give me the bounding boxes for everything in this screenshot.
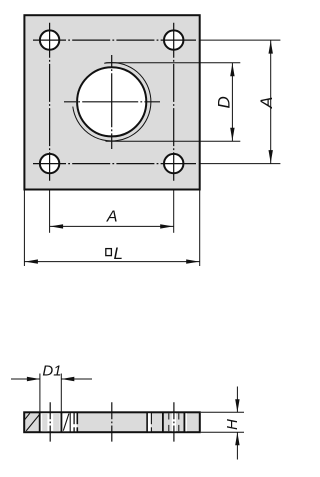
svg-text:A: A xyxy=(257,97,276,109)
extension line A top xyxy=(200,39,281,41)
label square symbol xyxy=(106,249,112,256)
extension line D1 left xyxy=(39,374,41,413)
hole top-left xyxy=(40,30,59,49)
hole1 right edge xyxy=(60,412,62,432)
hole2 white band center xyxy=(172,413,176,431)
svg-text:L: L xyxy=(114,244,123,263)
hole2 white sliver right xyxy=(185,413,187,431)
dimension line square L xyxy=(24,261,199,263)
side centerline hole1 xyxy=(49,402,51,441)
thread arc (3/4 circle) xyxy=(73,63,151,141)
extension line plate right edge xyxy=(199,190,201,266)
extension line plate left edge xyxy=(23,190,25,266)
dimension line A horizontal xyxy=(50,225,174,227)
central bore circle xyxy=(77,67,146,136)
hole2 chamfer line left xyxy=(168,413,170,419)
hole1 void (sectioned) xyxy=(40,413,60,431)
hole top-right xyxy=(164,30,183,49)
extension line A bottom xyxy=(200,163,281,165)
hole1 inner grey band right xyxy=(53,413,59,431)
svg-text:D: D xyxy=(215,96,234,108)
centerline vertical central hole xyxy=(111,55,113,149)
side centerline hole2 xyxy=(173,402,175,441)
centerline horizontal top hole row xyxy=(33,39,196,41)
plate outline (top view square flange) xyxy=(24,15,199,189)
hole bottom-left xyxy=(40,154,59,173)
extension line D1 right xyxy=(60,374,62,413)
dimension line D1 right tail xyxy=(61,378,92,380)
hole fills xyxy=(40,30,59,49)
central thread edge left xyxy=(73,412,75,424)
central thread edge right xyxy=(150,412,152,424)
central bore edge left xyxy=(76,412,78,424)
hatch lines xyxy=(16,413,69,431)
central bore edge right xyxy=(146,412,148,432)
hole1 inner grey band left xyxy=(42,413,47,431)
side view plate section xyxy=(24,412,200,432)
extension line H bottom xyxy=(201,431,244,433)
extension line D bottom xyxy=(106,140,241,142)
extension line bottom holes right xyxy=(173,190,175,232)
extension line H top xyxy=(201,411,244,413)
dimension line A vertical xyxy=(270,40,272,164)
hole2 right edge xyxy=(183,412,185,432)
dimension line H xyxy=(236,387,238,413)
extension line bottom holes left xyxy=(49,190,51,232)
hole2 left edge xyxy=(162,412,164,432)
break line xyxy=(69,412,71,432)
svg-text:D1: D1 xyxy=(42,363,61,380)
hole bottom-right xyxy=(164,154,183,173)
hole2 chamfer line right xyxy=(178,413,180,419)
svg-text:H: H xyxy=(224,419,241,430)
side centerline central xyxy=(111,402,113,441)
centerline vertical left hole column xyxy=(49,23,51,181)
centerline horizontal bottom hole row xyxy=(33,163,196,165)
extension line D top xyxy=(106,62,241,64)
sectioned web white zone xyxy=(63,413,77,431)
centerline horizontal central hole xyxy=(64,101,160,103)
hole1 left edge xyxy=(39,412,41,432)
dimension line D xyxy=(231,63,233,142)
centerline vertical right hole column xyxy=(173,23,175,181)
svg-text:A: A xyxy=(106,209,118,226)
dimension line D1 left tail xyxy=(11,378,40,380)
central hole white band right xyxy=(148,413,151,431)
